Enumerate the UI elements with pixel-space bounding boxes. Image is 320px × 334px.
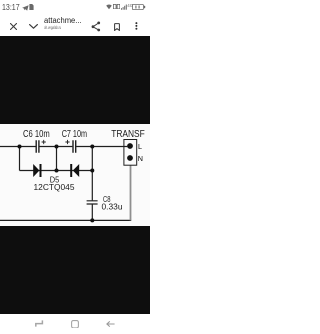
svg-text:N: N	[138, 154, 143, 163]
svg-text:C6 10m: C6 10m	[23, 129, 50, 140]
svg-text:L: L	[138, 142, 142, 151]
svg-text:12CTQ045: 12CTQ045	[34, 182, 75, 192]
svg-text:C7 10m: C7 10m	[62, 129, 87, 140]
svg-text:0.33u: 0.33u	[102, 202, 123, 212]
svg-text:TRANSF: TRANSF	[111, 129, 145, 140]
